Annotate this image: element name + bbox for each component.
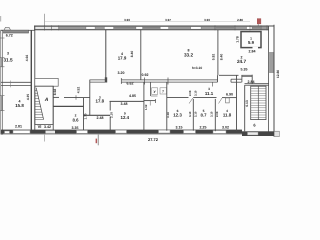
wall junction ticks — [144, 78, 146, 85]
staircase B box — [251, 86, 266, 119]
svg-text:17.8: 17.8 — [96, 98, 105, 103]
svg-text:27.72: 27.72 — [148, 137, 159, 142]
top wall window ticks — [45, 25, 267, 30]
top facade wall: inner line — [34, 29, 269, 31]
svg-text:3.93: 3.93 — [204, 18, 210, 22]
svg-text:15.8: 15.8 — [15, 103, 24, 108]
door leaf room 12.3 — [189, 98, 193, 104]
entrance canopy bump — [4, 27, 11, 30]
svg-text:3.35: 3.35 — [72, 126, 79, 130]
door jamb tick right of big-room door — [120, 78, 122, 84]
right outer wall outer line — [273, 25, 275, 137]
door jamb ticks — [155, 99, 157, 103]
svg-text:12.3: 12.3 — [173, 113, 182, 118]
corridor bottom wall right segments — [144, 97, 237, 100]
svg-text:8.40: 8.40 — [220, 54, 224, 61]
scan edge smudge — [0, 16, 1, 22]
wing divider dim tick — [10, 81, 12, 88]
bottom outer wall right band — [242, 131, 274, 136]
jog connector wing/main wall — [29, 29, 35, 31]
closet door gap — [253, 47, 259, 49]
wall 8.7/11.8 — [214, 99, 216, 131]
svg-text:12.4: 12.4 — [121, 115, 130, 120]
left wall window ticks — [0, 38, 5, 111]
staircase B center line — [257, 86, 259, 119]
svg-text:3: 3 — [7, 51, 9, 55]
svg-text:11.8: 11.8 — [223, 113, 232, 118]
door leaf tick room 11.1 — [212, 82, 214, 86]
wing inner wall line A — [30, 30, 32, 130]
tick under red mark — [257, 24, 259, 27]
wall between 17.9 and 33.2 — [140, 30, 142, 80]
svg-text:2.25: 2.25 — [200, 125, 207, 129]
staircase A treads — [35, 91, 44, 120]
svg-text:2.86: 2.86 — [237, 18, 243, 22]
svg-text:2.84: 2.84 — [248, 80, 255, 84]
wing divider wall — [1, 81, 32, 83]
wall right of stair A — [52, 86, 54, 130]
svg-text:2.08: 2.08 — [188, 90, 192, 96]
left outer wall — [1, 31, 3, 135]
svg-text:3.10: 3.10 — [210, 111, 214, 117]
svg-text:4.35: 4.35 — [26, 94, 30, 100]
svg-text:5.35: 5.35 — [241, 68, 248, 72]
svg-text:12.80: 12.80 — [276, 70, 280, 78]
svg-text:3.97: 3.97 — [165, 18, 171, 22]
stair block top wall — [245, 83, 269, 85]
WC cubicle box 1 — [152, 88, 158, 95]
closet 2.48 top wall — [84, 114, 111, 116]
dimension hairline top — [45, 21, 250, 23]
svg-text:8.40: 8.40 — [130, 51, 134, 58]
svg-text:1.78: 1.78 — [236, 36, 240, 43]
room 12.4 top wall — [110, 100, 144, 102]
wall room 8.6 right — [83, 98, 85, 130]
svg-text:1.52: 1.52 — [144, 104, 148, 110]
svg-text:8.7: 8.7 — [201, 113, 208, 118]
closet 5.9 box — [241, 32, 261, 48]
wall stub with end cap — [231, 78, 242, 80]
bottom wall under-line — [1, 134, 242, 136]
staircase B treads — [251, 89, 266, 118]
door leaf H6 left — [149, 101, 151, 106]
svg-text:3.10: 3.10 — [193, 90, 197, 96]
svg-text:31.5: 31.5 — [3, 58, 13, 63]
wall stub right of 24.7 door — [251, 75, 253, 84]
svg-text:6.13: 6.13 — [245, 100, 249, 107]
svg-text:5.9: 5.9 — [248, 40, 255, 45]
top facade wall gray band — [34, 26, 269, 30]
svg-text:4.85: 4.85 — [129, 94, 136, 98]
wall between room1 and room 17.9 — [105, 30, 107, 82]
fixture box in room 11.8 — [226, 98, 230, 103]
svg-text:0.92: 0.92 — [142, 73, 149, 77]
small rooms left wall — [150, 82, 152, 96]
svg-text:3.93: 3.93 — [124, 18, 130, 22]
left wing top wall — [1, 30, 29, 33]
wall between 33.2 and 24.7 — [217, 30, 219, 76]
svg-text:h=3.10: h=3.10 — [192, 66, 203, 70]
room 24.7 bottom wall — [219, 74, 239, 76]
staircase A landing box — [35, 78, 58, 86]
connector at door jamb — [241, 75, 243, 82]
red mark I below wall — [96, 139, 98, 144]
svg-text:33.2: 33.2 — [184, 53, 194, 58]
svg-text:3.15: 3.15 — [176, 125, 183, 129]
WC cubicle box 2 — [160, 88, 167, 94]
svg-text:3.20: 3.20 — [118, 71, 125, 75]
svg-text:7: 7 — [162, 89, 164, 93]
wing inner wall line B — [34, 26, 36, 130]
wall room 17.8 left — [89, 80, 91, 115]
svg-text:8.68: 8.68 — [53, 89, 57, 96]
corner stub to room 24.7 wall — [217, 75, 219, 82]
tick crossing corridor wall — [75, 95, 77, 100]
svg-text:5.92: 5.92 — [212, 54, 216, 61]
corridor top wall (big rooms bottom) — [90, 80, 218, 82]
svg-text:4.66: 4.66 — [25, 55, 29, 62]
svg-text:3.16: 3.16 — [166, 112, 170, 118]
exit door gap at stair B — [248, 132, 259, 135]
svg-text:VI: VI — [38, 124, 42, 129]
svg-text:4.52: 4.52 — [77, 87, 81, 94]
wall rooms 12.3 left — [166, 82, 168, 131]
svg-text:2.81: 2.81 — [15, 124, 22, 128]
svg-text:3.10: 3.10 — [188, 111, 192, 117]
staircase A box — [35, 86, 53, 124]
corridor bottom wall left — [54, 96, 60, 98]
svg-text:3.48: 3.48 — [121, 102, 128, 106]
bottom outer wall main band — [1, 130, 242, 134]
svg-text:24.7: 24.7 — [237, 59, 247, 64]
right outer wall inner line — [268, 26, 270, 132]
svg-text:8.6: 8.6 — [73, 117, 80, 122]
bottom wall windows — [5, 130, 227, 133]
room 8.6 top wall — [53, 105, 84, 107]
top facade wall: outer line — [34, 25, 274, 27]
svg-text:2.48: 2.48 — [97, 116, 104, 120]
faint facade dim numbers — [124, 18, 243, 22]
wall end pier — [105, 77, 107, 82]
right wall window glass — [269, 52, 273, 73]
svg-text:1.70: 1.70 — [84, 113, 88, 119]
dimension tick x=44.6 — [44, 14, 46, 31]
wall 11.8 right — [236, 75, 238, 131]
left wall window glass segments — [1, 58, 3, 67]
red level mark IB — [257, 19, 261, 24]
small rooms bottom line — [151, 95, 158, 97]
wall room 12.4 right — [143, 82, 145, 131]
wall room 12.4 left — [109, 101, 111, 110]
dim tick below bottom wall left — [44, 134, 46, 141]
svg-text:6.90: 6.90 — [226, 93, 233, 97]
top wall white window boxes — [35, 27, 252, 30]
wall 12.3/8.7 — [192, 99, 194, 131]
dim tick below bottom wall mid — [97, 134, 99, 145]
svg-text:17.9: 17.9 — [118, 56, 127, 61]
svg-text:3.42: 3.42 — [44, 125, 51, 129]
exit door gap at stair A — [46, 131, 56, 134]
svg-text:6.62: 6.62 — [127, 81, 134, 85]
bottom right wall foot — [274, 131, 279, 136]
svg-text:2.10: 2.10 — [109, 112, 113, 118]
top wall window mid-lines — [114, 27, 260, 29]
svg-text:11.1: 11.1 — [205, 91, 214, 96]
staircase A run diagonal — [36, 88, 43, 120]
svg-text:A: A — [44, 97, 49, 103]
svg-text:6.72: 6.72 — [6, 34, 13, 38]
door leaf room 11.8 — [219, 98, 223, 104]
corridor right wall / stair block left — [244, 85, 246, 131]
svg-text:3.02: 3.02 — [222, 125, 229, 129]
svg-text:2.10: 2.10 — [194, 111, 198, 117]
svg-text:2.84: 2.84 — [249, 50, 256, 54]
